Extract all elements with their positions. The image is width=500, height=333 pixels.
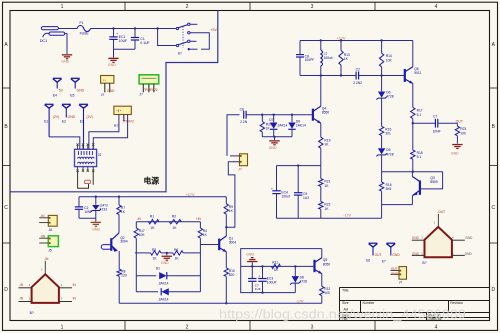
svg-text:4728: 4728 (386, 95, 394, 99)
svg-text:FUSE: FUSE (80, 31, 90, 35)
svg-text:GND: GND (161, 261, 169, 265)
svg-text:4733: 4733 (100, 208, 108, 212)
oscillator bottom wire (300, 75, 356, 77)
resistor R17 5.1 (411, 107, 415, 118)
svg-text:R11: R11 (272, 260, 278, 264)
wire driver input (241, 265, 315, 267)
capacitor C2 10NF (bypass) (78, 197, 80, 207)
svg-text:-OUT: -OUT (437, 210, 445, 214)
svg-text:1: 1 (61, 4, 64, 10)
svg-text:220: 220 (121, 273, 127, 277)
ground GND (output) (452, 144, 462, 145)
svg-text:J5: J5 (48, 248, 52, 252)
svg-text:GND: GND (108, 63, 116, 67)
resistor R14 10K (381, 41, 383, 54)
svg-text:-IN: -IN (19, 283, 24, 287)
svg-text:100uh: 100uh (324, 56, 333, 60)
resistor R7 1K (118, 197, 120, 205)
zener LM?2 4733 (95, 197, 97, 205)
-17V rail (upper) (277, 217, 382, 219)
transformer J2 bottom pins (77, 167, 79, 172)
connector J3 (GND header) (101, 76, 114, 84)
svg-text:1: 1 (61, 324, 64, 330)
svg-text:820: 820 (229, 273, 235, 277)
svg-text:5.1: 5.1 (417, 155, 422, 159)
svg-text:E6: E6 (366, 259, 370, 263)
svg-text:F1: F1 (80, 21, 84, 25)
wire E1 to transformer (49, 137, 80, 149)
resistor R19 1K (320, 123, 322, 137)
svg-text:R6: R6 (174, 248, 178, 252)
svg-text:-IN: -IN (44, 257, 49, 261)
svg-text:E1: E1 (44, 119, 48, 123)
svg-text:▪❙▪: ▪❙▪ (116, 109, 121, 113)
svg-text:2AK14: 2AK14 (159, 298, 169, 302)
wire DC1 pin2 down (65, 34, 67, 54)
svg-text:100: 100 (460, 132, 466, 136)
svg-text:Number: Number (363, 301, 376, 305)
wire legs down (135, 253, 137, 292)
capacitor C6 2.2N (243, 111, 245, 119)
svg-text:GND: GND (246, 253, 254, 257)
limiter input wire (227, 115, 240, 156)
limiter bottom wire (262, 136, 292, 138)
svg-text:E3: E3 (80, 119, 84, 123)
svg-text:100: 100 (324, 291, 330, 295)
svg-text:R?: R? (114, 124, 118, 128)
svg-text:E2: E2 (62, 119, 66, 123)
svg-text:Size: Size (342, 301, 349, 305)
wire fuse to switch (91, 28, 177, 30)
svg-text:电源: 电源 (144, 176, 160, 186)
svg-text:5V: 5V (59, 89, 64, 93)
wire RIV2 pin3 to transformer pin4 (93, 115, 127, 150)
connector J? OUT (399, 267, 407, 280)
svg-text:C: C (4, 205, 8, 211)
svg-text:-IN: -IN (19, 297, 24, 301)
svg-text:D: D (491, 287, 495, 293)
section divider (power block outline) (10, 11, 218, 192)
ground GND (filter caps) (113, 49, 115, 57)
power port E5 GND (71, 77, 80, 79)
svg-text:3004: 3004 (229, 241, 237, 245)
svg-text:GND: GND (77, 89, 85, 93)
capacitor EC1 10UF (113, 29, 115, 37)
ground GND (feedback) (166, 253, 168, 256)
+17V rail (79, 196, 226, 198)
svg-text:C6: C6 (240, 107, 244, 111)
resistor R18 5.1 (412, 123, 414, 150)
resistor R23 100 (456, 123, 458, 126)
svg-text:1U2: 1U2 (303, 196, 309, 200)
ground GND (DC jack) (62, 54, 72, 55)
svg-text:Revision: Revision (450, 301, 463, 305)
svg-text:10K: 10K (139, 233, 146, 237)
svg-text:L1: L1 (324, 52, 328, 56)
transformer J2 (75, 149, 97, 166)
speaker B? (input, house symbol) (44, 261, 46, 274)
svg-text:(2V): (2V) (53, 115, 59, 119)
zener D5 4728 (381, 136, 383, 149)
svg-text:J2: J2 (98, 153, 102, 157)
feedback network wire (136, 221, 200, 223)
svg-text:10UF: 10UF (119, 39, 127, 43)
svg-text:+5V: +5V (210, 28, 217, 32)
svg-text:+17V: +17V (186, 193, 195, 197)
svg-text:(2V): (2V) (86, 115, 92, 119)
svg-text:https://blog.csdn.net/weixin_4: https://blog.csdn.net/weixin_44586889 (219, 307, 466, 322)
svg-text:+: + (271, 187, 273, 191)
zener D8 4728 (294, 266, 296, 276)
svg-text:GND: GND (465, 252, 473, 256)
svg-text:+IN: +IN (196, 217, 202, 221)
svg-text:3: 3 (311, 4, 314, 10)
svg-text:E7: E7 (382, 259, 386, 263)
wire branch to switch pole 2 (158, 29, 177, 46)
svg-text:2: 2 (186, 324, 189, 330)
svg-text:J?: J? (101, 93, 105, 97)
transistor Q4 8550 (312, 109, 314, 121)
svg-text:8050: 8050 (323, 262, 331, 266)
zener D6 4728 (381, 76, 383, 92)
svg-text:J6: J6 (49, 228, 53, 232)
wire Q2 emitter down (118, 251, 120, 269)
power port E7 GND (386, 242, 395, 244)
svg-text:C: C (491, 205, 495, 211)
svg-text:GND: GND (412, 236, 420, 240)
svg-text:GND: GND (61, 60, 69, 64)
power port E3 (2V) (79, 103, 88, 105)
diode D2 2AK14 (136, 291, 158, 293)
resistor R21 1K (320, 166, 322, 179)
power port E6 OUT (369, 242, 378, 244)
svg-text:DC1: DC1 (40, 39, 48, 43)
svg-text:E5: E5 (70, 93, 74, 97)
resistor R3 1K (135, 252, 151, 254)
svg-text:+: + (258, 274, 260, 278)
svg-text:100UF: 100UF (267, 281, 277, 285)
svg-text:C2: C2 (356, 67, 360, 71)
ground GND (limiter) (274, 137, 276, 140)
svg-text:R3: R3 (152, 248, 156, 252)
svg-text:Title: Title (342, 289, 349, 293)
svg-text:100PF: 100PF (305, 58, 315, 62)
resistor R17 10K (left leg) (135, 222, 137, 228)
svg-text:301: 301 (385, 132, 391, 136)
svg-text:100uf: 100uf (281, 195, 289, 199)
svg-text:▪ ▪: ▪ ▪ (103, 78, 106, 82)
ground GND (bypass) (95, 218, 97, 221)
capacitor C1 0.1UF (134, 29, 136, 38)
svg-text:B?: B? (422, 261, 426, 265)
zone tick marks (124, 2, 126, 10)
wire bypass bottom (79, 217, 96, 219)
+12V rail (300, 40, 413, 42)
connector J6 (line input, yellow) (48, 215, 57, 226)
svg-text:OUT: OUT (391, 267, 398, 271)
svg-text:″PWRIV2: ″PWRIV2 (144, 88, 158, 92)
svg-text:J?: J? (238, 167, 242, 171)
resistor R2 1K (169, 220, 181, 224)
input connector J? (mic jack) (240, 154, 248, 166)
svg-text:3K6: 3K6 (386, 187, 392, 191)
svg-text:-IN: -IN (137, 217, 142, 221)
svg-text:10K: 10K (386, 58, 393, 62)
transistor Q5 8050 (313, 260, 315, 272)
switch S1 (176, 27, 178, 29)
power port E4 +5V (53, 77, 62, 79)
svg-text:R1: R1 (150, 214, 154, 218)
resistor R16 3K6 (381, 172, 383, 182)
transistor Q2 3004 (112, 233, 119, 239)
svg-text:-IN: -IN (40, 214, 45, 218)
resistor R8 220 (117, 269, 121, 276)
resistor R10 820 (225, 252, 227, 268)
transistor Q3 8550 (mirrored) (411, 172, 413, 177)
svg-text:GND: GND (68, 115, 76, 119)
svg-text:TPRIV2: TPRIV2 (122, 119, 134, 123)
wire J? pin2 to Q1 base node (226, 162, 239, 228)
transistor Q6 9011 (382, 75, 405, 77)
diode D6 2AK14 (291, 115, 293, 123)
svg-text:GND: GND (391, 272, 399, 276)
wire R3-R6 mid (161, 252, 173, 254)
svg-text:GND: GND (92, 228, 100, 232)
svg-text:OUT: OUT (456, 120, 464, 124)
capacitor C2 2.2N2 (355, 72, 357, 80)
svg-text:GND: GND (465, 236, 473, 240)
svg-text:GND: GND (392, 253, 400, 257)
svg-text:5.1: 5.1 (417, 113, 422, 117)
resistor R11 1K (272, 264, 281, 268)
diode D1 2AK14 (136, 275, 156, 277)
svg-text:OUT: OUT (375, 253, 382, 257)
svg-text:2.2N: 2.2N (240, 120, 248, 124)
svg-text:GND: GND (451, 151, 459, 155)
svg-text:D7: D7 (269, 118, 273, 122)
svg-text:GND: GND (107, 89, 115, 93)
driver stage top wire (241, 249, 322, 293)
svg-text:C7: C7 (433, 115, 437, 119)
svg-text:-17V: -17V (296, 300, 304, 304)
resistor R9 1K (225, 197, 227, 204)
fuse F1 (77, 26, 91, 32)
svg-text:E4: E4 (53, 93, 57, 97)
resistor R15 301 (379, 126, 383, 135)
svg-text:4728: 4728 (386, 152, 394, 156)
resistor R12 100 (320, 286, 324, 295)
diode D7 2AK14 (273, 115, 275, 123)
wire output node (412, 119, 414, 124)
wire cap bottoms (114, 48, 136, 50)
capacitor C9 1U2 (297, 166, 299, 193)
svg-text:10NF: 10NF (433, 129, 441, 133)
svg-text:8550: 8550 (322, 111, 330, 115)
title block (339, 288, 341, 321)
resistor R22 1K (320, 186, 322, 201)
svg-text:D1: D1 (156, 267, 160, 271)
svg-text:B?: B? (30, 311, 34, 315)
svg-text:GND: GND (412, 252, 420, 256)
resistor R13 1K (340, 41, 342, 51)
svg-text:1UF: 1UF (255, 287, 261, 291)
connector J5 (line input, green) (48, 236, 58, 247)
driver block top wire (382, 171, 443, 173)
svg-text:4: 4 (435, 324, 438, 330)
power port E1 (2V) (45, 103, 54, 105)
svg-text:R2: R2 (172, 214, 176, 218)
svg-text:4: 4 (435, 4, 438, 10)
connector R? (RIV2 header) (114, 106, 131, 114)
-17V rail (lower) (119, 302, 322, 304)
transistor Q1 3004 (218, 239, 220, 251)
svg-text:2: 2 (186, 4, 189, 10)
svg-text:J?: J? (139, 93, 143, 97)
svg-text:J?: J? (399, 281, 403, 285)
connector J4 (green power header) (139, 75, 159, 84)
svg-text:-17V: -17V (343, 214, 351, 218)
resistor R20 1K (261, 115, 263, 122)
svg-text:+IN: +IN (40, 235, 46, 239)
capacitor C7 10NF (434, 119, 436, 128)
capacitor C? 1UF (251, 266, 253, 278)
svg-text:3004: 3004 (120, 240, 128, 244)
wire Q6 collector to rail (412, 41, 414, 67)
svg-text:9011: 9011 (414, 71, 421, 75)
speaker B? (output, house symbol) (437, 214, 439, 227)
svg-text:2AK14: 2AK14 (159, 281, 169, 285)
svg-text:S?: S? (178, 52, 182, 56)
svg-text:2AK14: 2AK14 (296, 124, 306, 128)
svg-text:3: 3 (311, 324, 314, 330)
svg-text:0.1UF: 0.1UF (140, 41, 149, 45)
svg-text:2AK14: 2AK14 (278, 124, 288, 128)
wire RIV2 pin1 to transformer pin3 (89, 115, 119, 150)
svg-text:2.2N2: 2.2N2 (353, 81, 362, 85)
EC4 block top wire (277, 165, 322, 167)
capacitor EC4 100uf (276, 166, 278, 191)
wire DC1 pin1 to fuse (58, 28, 77, 30)
svg-text:D: D (4, 287, 8, 293)
wire C6 to Q4 base (247, 114, 313, 116)
resistor R1 1K (149, 220, 160, 224)
svg-text:8550: 8550 (430, 180, 438, 184)
resistor R4 1K (right leg) (199, 222, 201, 228)
wire Q4 collector up (320, 76, 322, 107)
connector DC1 (power jack) (41, 27, 58, 30)
capacitor EC3 100UF (262, 266, 264, 278)
driver bottom wire (382, 204, 413, 206)
wire Q6 emitter down (412, 83, 414, 107)
power port E2 GND (62, 103, 71, 105)
inductor L1 100uh (320, 41, 322, 51)
svg-text:4728: 4728 (300, 280, 308, 284)
resistor R6 1K (173, 251, 184, 255)
svg-text:GND: GND (269, 146, 277, 150)
capacitor C8 100PF (299, 41, 301, 55)
